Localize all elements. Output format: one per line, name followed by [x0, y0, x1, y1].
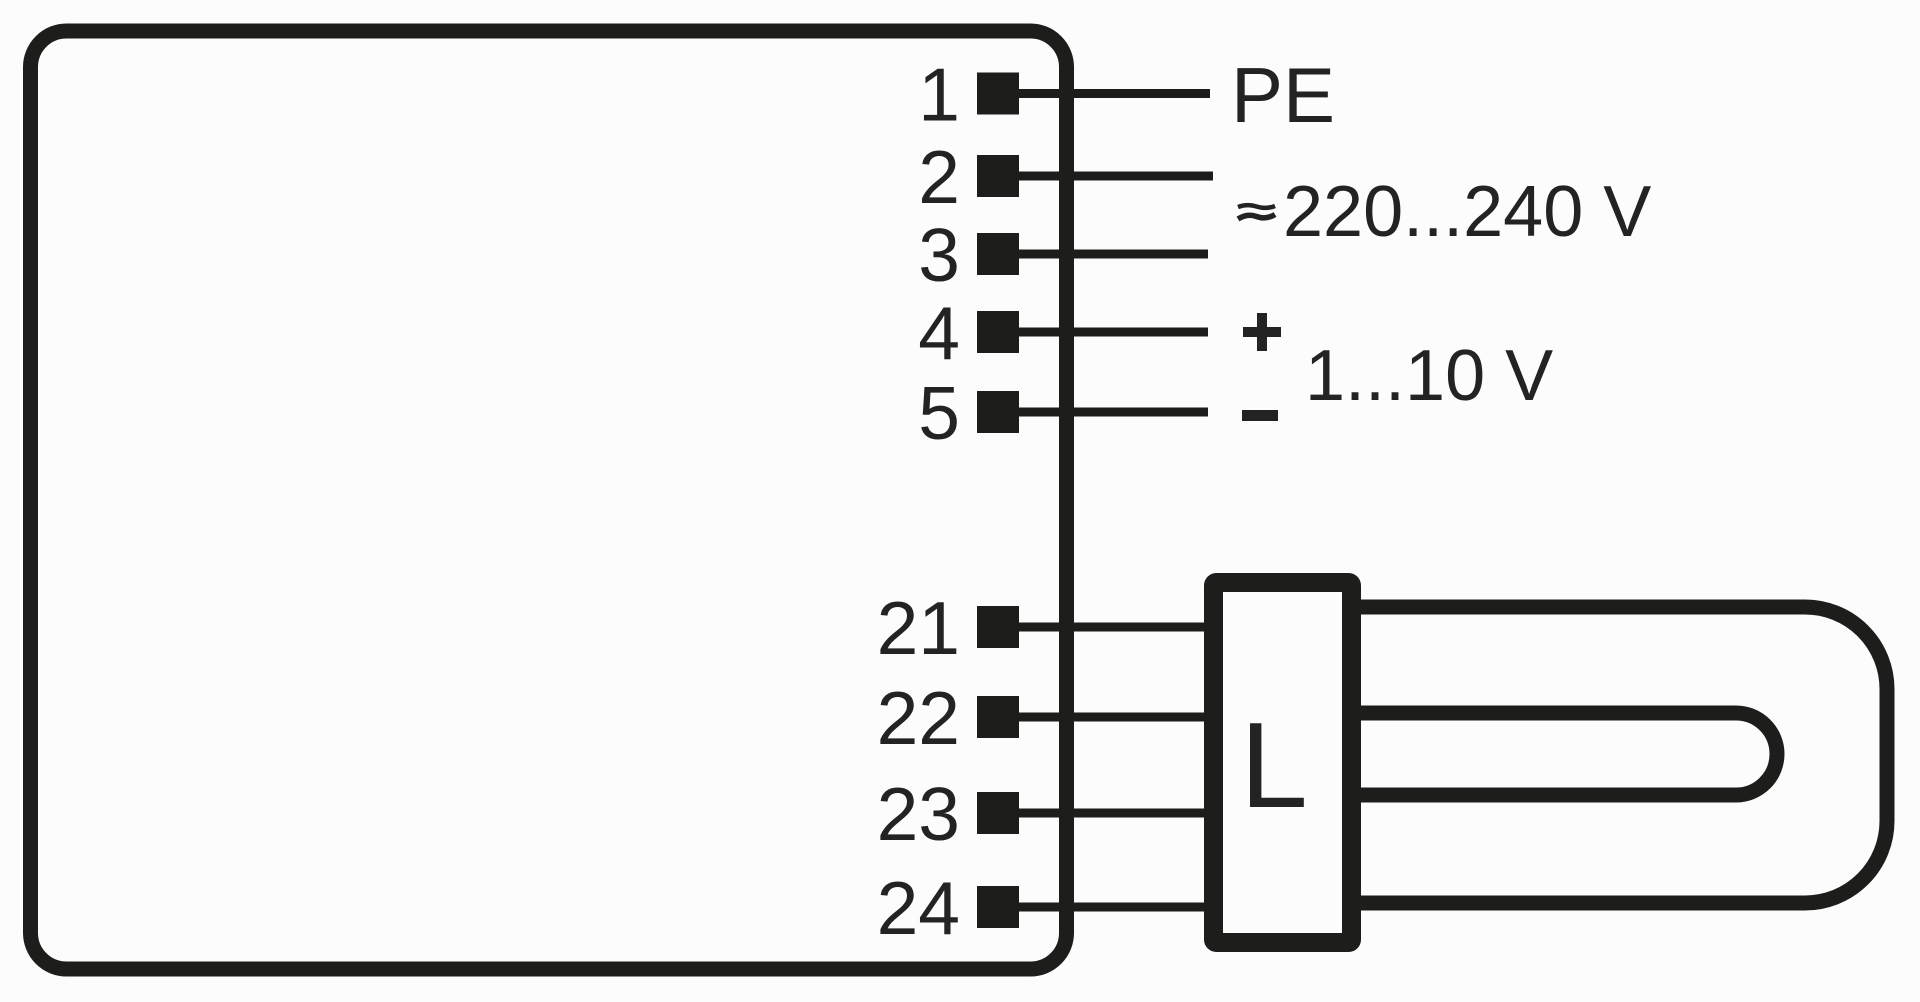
svg-text:L: L	[1240, 697, 1308, 833]
svg-text:1: 1	[918, 53, 960, 137]
svg-text:PE: PE	[1231, 51, 1335, 139]
svg-text:1...10 V: 1...10 V	[1305, 336, 1553, 416]
svg-text:22: 22	[877, 676, 960, 760]
svg-text:5: 5	[918, 371, 960, 455]
svg-text:24: 24	[877, 866, 960, 950]
svg-text:2: 2	[918, 135, 960, 219]
svg-text:220...240 V: 220...240 V	[1283, 172, 1651, 252]
svg-text:23: 23	[877, 772, 960, 856]
svg-text:4: 4	[918, 291, 960, 375]
svg-text:21: 21	[877, 586, 960, 670]
svg-text:3: 3	[918, 213, 960, 297]
